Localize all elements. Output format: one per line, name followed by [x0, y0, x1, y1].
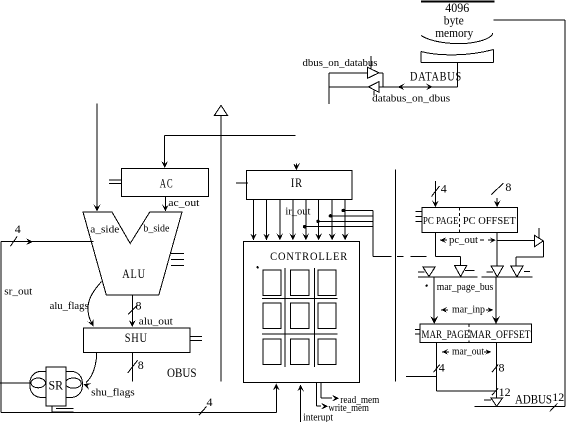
mar_out left arrow [442, 351, 449, 353]
SR right ellipse [65, 378, 81, 388]
stray dot [256, 266, 258, 268]
wire branch 1 [343, 209, 373, 211]
svg-text:shu_flags: shu_flags [91, 386, 135, 398]
enable line databus_on_dbus [373, 91, 375, 96]
wire OBUS bottom [1, 412, 276, 414]
tri-state buffer databus_on_dbus [369, 82, 379, 93]
wire rail to MAR page [433, 277, 435, 323]
svg-text:PC PAGE: PC PAGE [423, 215, 459, 227]
svg-text:4: 4 [207, 395, 213, 409]
AC left ticks [109, 179, 122, 181]
svg-text:write_mem: write_mem [328, 402, 369, 414]
wire mar_out offset [496, 343, 498, 398]
bus slash adbus [550, 403, 558, 411]
svg-text:CONTROLLER: CONTROLLER [270, 251, 348, 263]
svg-text:alu_out: alu_out [139, 316, 173, 328]
tri-state buffer t1 [423, 267, 435, 276]
mar_page_bus rail right [482, 276, 533, 278]
SHU right ticks [190, 336, 202, 338]
wire buffer output to databus [379, 72, 383, 74]
svg-text:databus_on_dbus: databus_on_dbus [372, 93, 450, 105]
bus slash PC offset [491, 183, 503, 195]
CONTROLLER box [244, 242, 360, 383]
wire alu_out [131, 295, 133, 326]
databus buffer box (curved top) [421, 50, 494, 55]
junction dot 4 [303, 225, 306, 228]
ALU body [83, 212, 182, 295]
tri-state buffer pc right [535, 235, 544, 247]
register SHU [84, 328, 191, 352]
MAR divider [468, 324, 470, 343]
svg-text:12: 12 [552, 390, 564, 404]
svg-text:OBUS: OBUS [167, 365, 197, 380]
wire OBUS loop to a_side [1, 241, 94, 243]
arrow into IR [295, 164, 297, 170]
tri-state buffer t2 [455, 266, 467, 277]
PC left ticks [416, 211, 423, 213]
wire buffer out to t4 [542, 241, 544, 257]
svg-text:ir_out: ir_out [285, 206, 310, 218]
svg-text:ac_out: ac_out [168, 197, 199, 209]
svg-text:8: 8 [505, 180, 511, 194]
pc_out left arrow [440, 239, 447, 241]
svg-text:DATABUS: DATABUS [410, 69, 462, 84]
wire memory box to DATABUS [457, 63, 459, 88]
wires ir_out to controller [253, 200, 255, 240]
svg-text:MAR_PAGE: MAR_PAGE [421, 327, 469, 341]
svg-text:SHU: SHU [125, 330, 148, 345]
svg-text:alu_flags: alu_flags [50, 300, 89, 312]
svg-text:ADBUS: ADBUS [515, 391, 552, 406]
wire PC page input [434, 181, 436, 207]
pc_out dash [480, 239, 484, 241]
wire into SR from left [0, 382, 31, 384]
wire SHU to OBUS [131, 353, 133, 382]
wire OBUS up into controller [275, 385, 277, 413]
wire PC offset input [496, 198, 498, 206]
t2 enable tick [465, 270, 475, 272]
bus slash mar page out [434, 365, 440, 373]
mar_out right arrow [484, 351, 490, 353]
svg-text:MAR_OFFSET: MAR_OFFSET [470, 327, 532, 341]
wire input to a_side (vertical) [96, 104, 98, 211]
ALU right ticks [171, 252, 184, 254]
controller microcode cells [263, 270, 281, 296]
wire ADBUS [475, 405, 566, 407]
mar_page_bus rail left [418, 276, 477, 278]
svg-text:a_side: a_side [90, 223, 119, 235]
register SR [46, 367, 66, 406]
svg-text:4: 4 [15, 222, 21, 236]
svg-text:mar_out: mar_out [452, 345, 484, 357]
wire ac_out [164, 197, 166, 211]
svg-text:8: 8 [136, 299, 142, 313]
arrow left on DATABUS wire [398, 84, 405, 91]
junction dot 2 [329, 214, 332, 217]
svg-text:ALU: ALU [122, 266, 146, 281]
bus slash PC page [432, 186, 440, 197]
svg-text:memory: memory [435, 26, 474, 40]
enable line right buffer [538, 228, 540, 238]
wire dbus to AC [165, 135, 296, 137]
wire pc_out left [434, 232, 436, 256]
tri-state buffer dbus_on_databus [368, 67, 379, 78]
svg-text:AC: AC [160, 175, 174, 190]
tri-state buffer t4 [511, 266, 524, 277]
bus slash 12 [492, 388, 498, 395]
svg-text:PC OFFSET: PC OFFSET [463, 215, 516, 227]
wire section divider [395, 170, 397, 382]
SR bottom stubs [51, 406, 53, 412]
wire control bundle down [372, 210, 374, 256]
wire DATABUS horizontal [379, 86, 458, 88]
svg-text:8: 8 [499, 361, 505, 375]
stray dot 2 [426, 285, 428, 287]
bus width slash alu_out [128, 306, 137, 315]
OBUS riser open arrow [215, 105, 228, 115]
wire branch 4 [305, 226, 373, 228]
wire dbus to buffer input [329, 72, 367, 74]
wire alu_flags (curved) [88, 282, 102, 324]
svg-text:mar_inp: mar_inp [452, 303, 485, 315]
wire mar_out page [436, 343, 438, 391]
t3 enable tick [486, 271, 493, 273]
mar_inp left arrow [441, 309, 448, 311]
svg-text:b_side: b_side [143, 223, 169, 235]
wire stub left of mar out [406, 375, 437, 377]
wire interrupt [300, 386, 302, 422]
t1 enable tick [418, 271, 425, 273]
mar_inp right arrow [486, 309, 492, 311]
wire memory to ADBUS (right edge) [494, 19, 565, 21]
MAR left ticks [415, 329, 420, 331]
IR left tick [236, 182, 248, 184]
register PC PAGE / PC OFFSET [422, 207, 518, 232]
svg-text:4: 4 [439, 361, 445, 375]
wire pc_out right [496, 232, 498, 265]
svg-text:sr_out: sr_out [4, 286, 32, 298]
arrow on a_side wire [26, 238, 33, 245]
bus slash mar offset out [492, 365, 498, 373]
svg-text:8: 8 [138, 358, 144, 372]
wire buffer to dbus node [329, 86, 368, 88]
junction dot 1 [342, 209, 345, 212]
wire control dashed [397, 255, 404, 257]
svg-text:pc_out: pc_out [449, 234, 478, 246]
wire read_mem [320, 383, 322, 399]
wire mar out join [437, 390, 497, 392]
pc_out right arrow [488, 239, 495, 241]
wire branch 3 [318, 220, 373, 222]
ADBUS driver triangle [491, 398, 503, 406]
svg-text:4: 4 [441, 181, 447, 195]
svg-text:IR: IR [291, 175, 303, 190]
bus width slash a_side [10, 236, 17, 246]
SR outer rounded box [30, 371, 82, 397]
SR left ellipse [31, 378, 45, 388]
wire write_mem [316, 383, 318, 407]
svg-text:mar_page_bus: mar_page_bus [437, 281, 494, 293]
memory top line [421, 1, 495, 3]
enable line dbus_on_databus [370, 56, 372, 69]
wire rail to MAR offset [495, 277, 497, 323]
wire control to buffers (part solid) [373, 255, 392, 257]
register IR [247, 170, 352, 199]
controller grid vertical lines [284, 268, 286, 367]
wire shu_flags (curved) [86, 353, 97, 383]
register MAR_PAGE / MAR_OFFSET [420, 324, 532, 343]
tri-state buffer t3 [491, 266, 504, 277]
arrow right on DATABUS wire [426, 84, 433, 91]
ADBUS driver tick [484, 399, 491, 401]
wire branch 2 [330, 215, 373, 217]
memory bottom wavy curve [421, 33, 493, 43]
bus width slash obus4 [199, 407, 207, 416]
junction dot 3 [316, 220, 319, 223]
PC divider (dashed) [458, 207, 460, 232]
svg-text:dbus_on_databus: dbus_on_databus [303, 57, 378, 69]
svg-text:SR: SR [49, 379, 64, 393]
bus width slash obus8 [128, 360, 138, 373]
wire OBUS left vertical [0, 242, 2, 413]
svg-text:12: 12 [499, 385, 511, 399]
t4 enable tick [524, 270, 530, 272]
OBUS riser wire [220, 115, 222, 381]
register AC [122, 168, 209, 196]
wire pc to right buffer [497, 240, 534, 242]
controller grid horizontal lines [262, 298, 337, 300]
wire dbus vertical stub [328, 73, 330, 104]
